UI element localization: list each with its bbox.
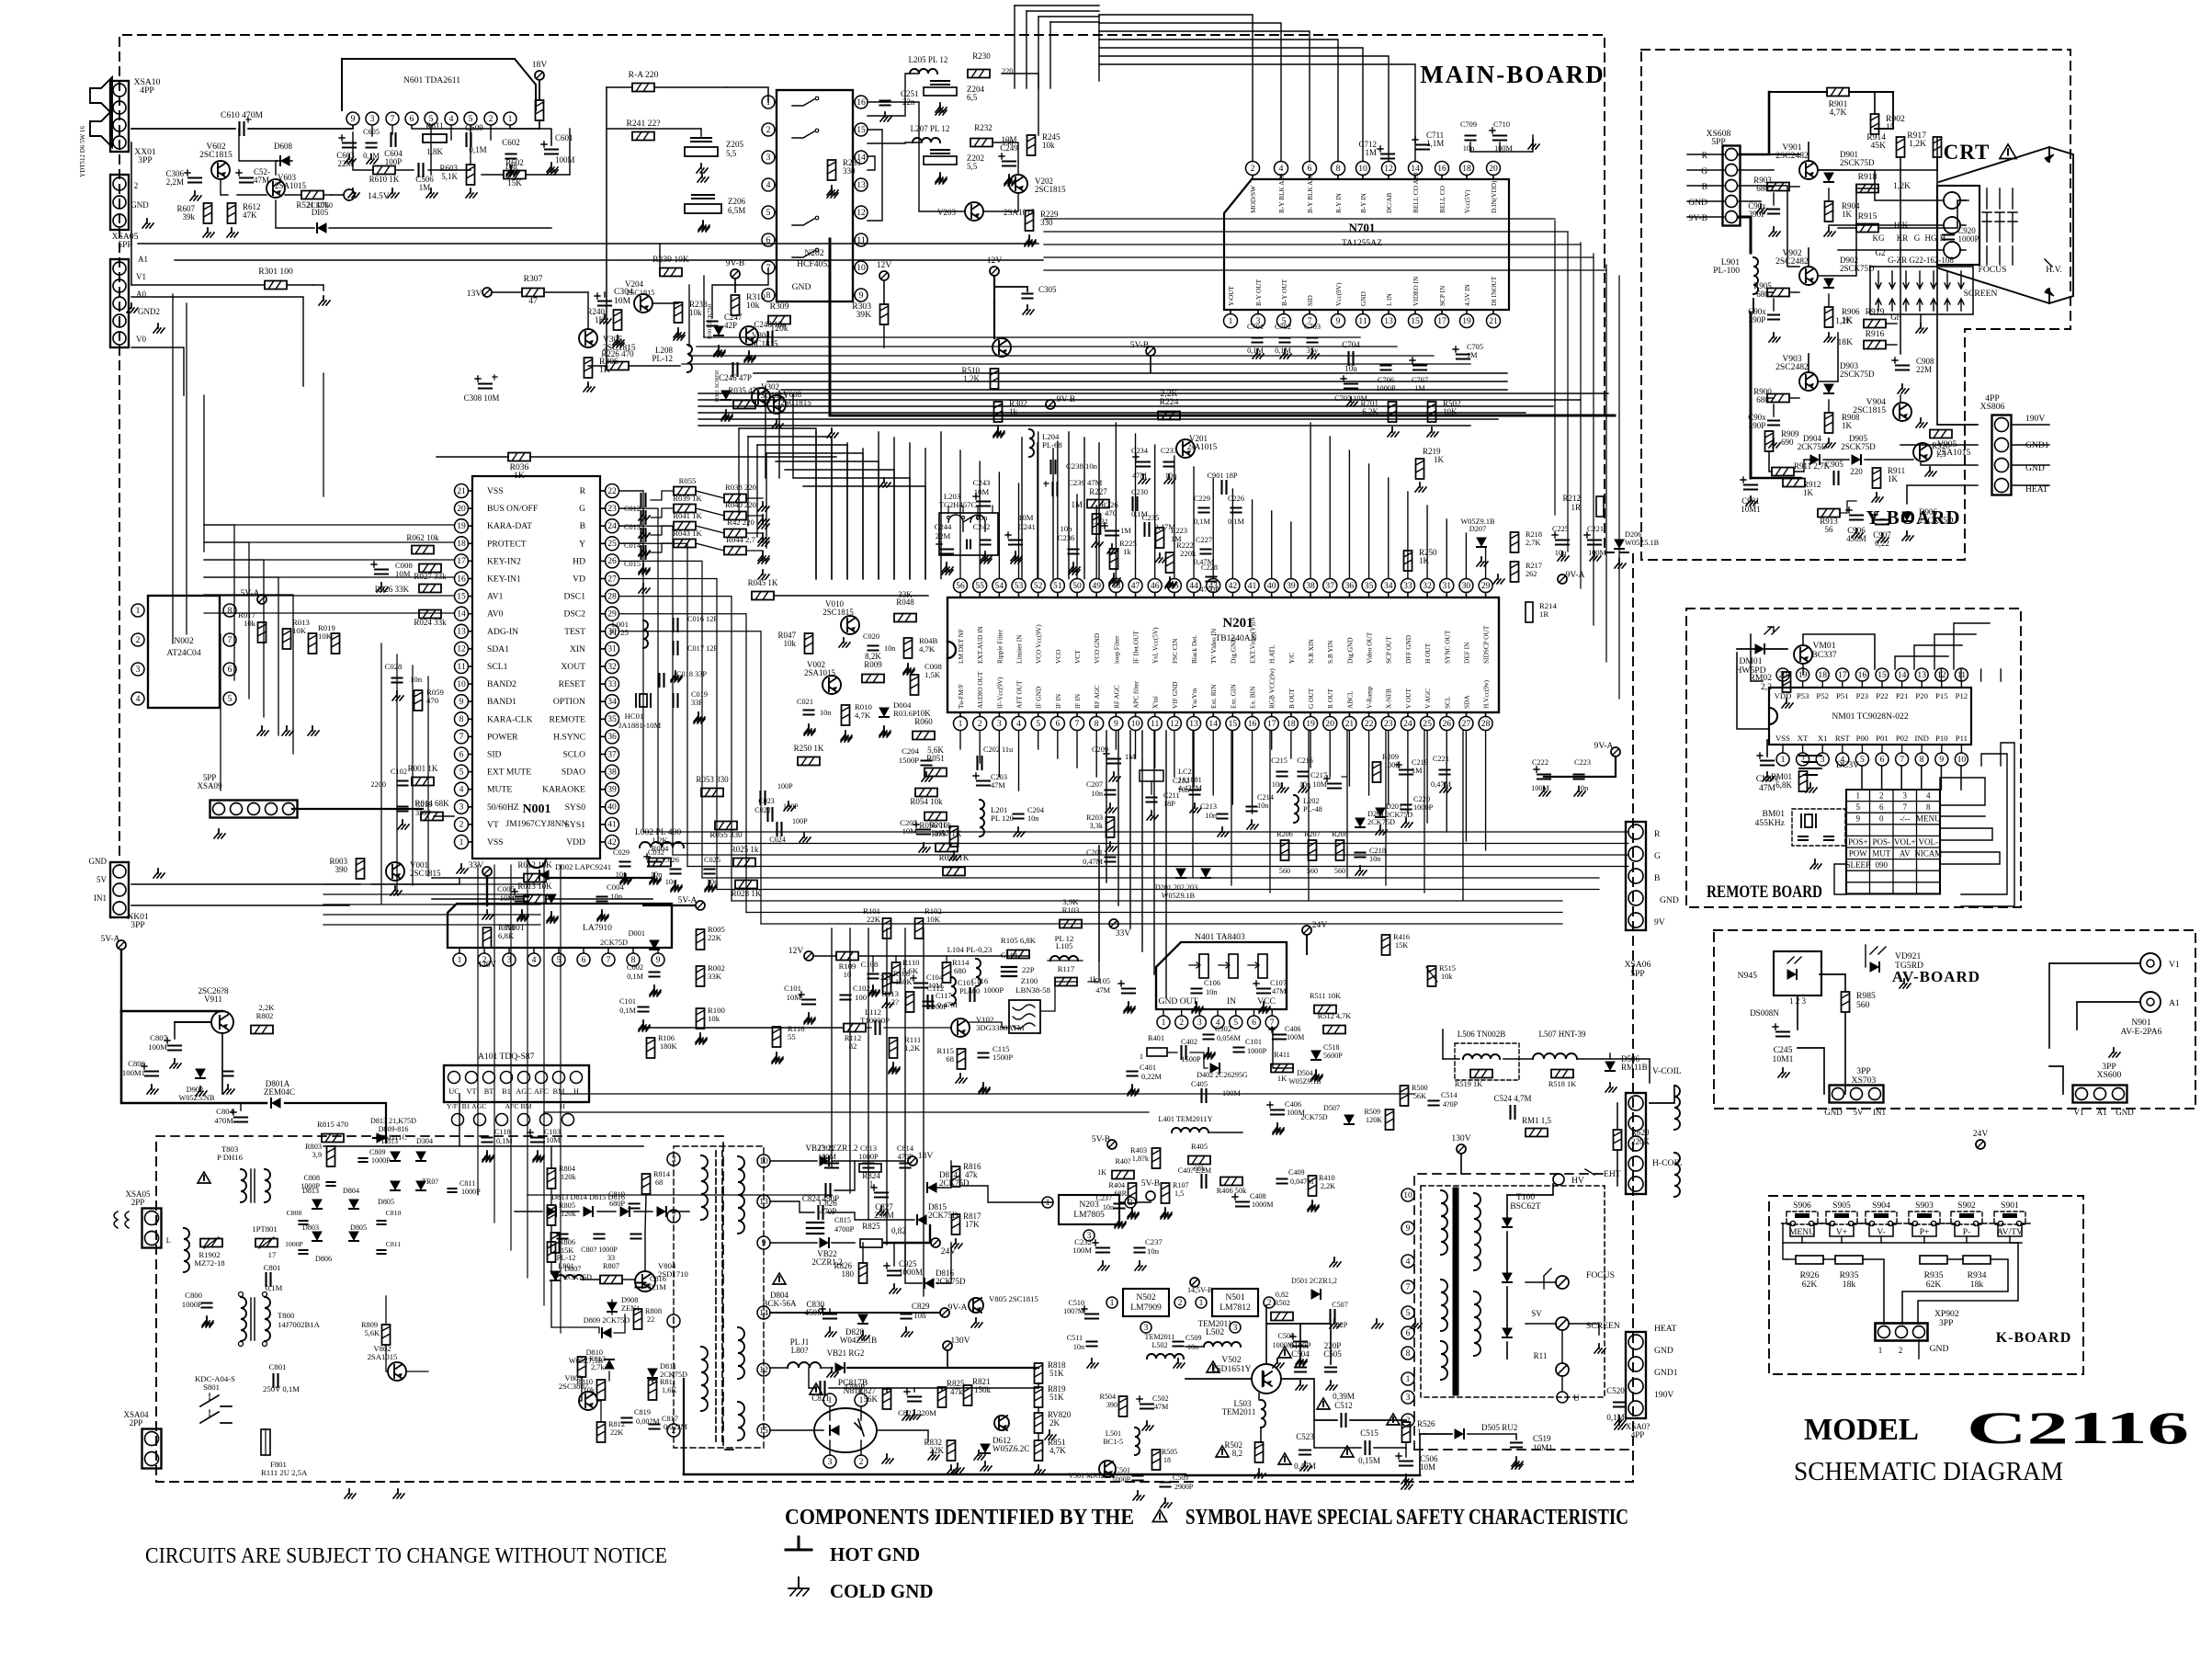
resistor R005 22K — [697, 925, 725, 950]
svg-text:220k: 220k — [1180, 549, 1197, 558]
svg-text:22K: 22K — [708, 933, 722, 942]
svg-text:1K: 1K — [1803, 488, 1814, 497]
diode string D813-D816 row — [515, 1193, 689, 1216]
cap C237 10n — [1095, 1194, 1126, 1226]
svg-text:690: 690 — [1781, 438, 1794, 447]
svg-text:BELL CO ADJ: BELL CO ADJ — [1412, 172, 1420, 213]
svg-text:L: L — [166, 1235, 171, 1245]
svg-text:100M1: 100M1 — [122, 1068, 145, 1077]
svg-text:10k: 10k — [746, 301, 760, 311]
regulator N203 LM7805 right — [961, 1178, 1163, 1270]
svg-text:MENU: MENU — [1916, 814, 1941, 824]
svg-text:23: 23 — [607, 504, 617, 514]
transistor V204 2SC1815 — [625, 279, 654, 313]
svg-text:7: 7 — [607, 955, 611, 965]
svg-text:C013: C013 — [624, 523, 641, 531]
svg-text:47M: 47M — [1272, 987, 1287, 995]
svg-text:S903: S903 — [1915, 1200, 1934, 1211]
NM01 pin 12 — [1935, 668, 1948, 700]
svg-text:C213: C213 — [1200, 802, 1217, 811]
svg-text:ADG-IN: ADG-IN — [487, 627, 518, 637]
resistor R824 1 — [859, 1164, 881, 1189]
svg-text:C704: C704 — [1342, 340, 1360, 349]
N001 pin 16 (KEY-IN1) — [455, 572, 521, 586]
A101 bottom caps C118 C103 — [482, 1128, 562, 1160]
resistor R222a 1M — [1155, 527, 1187, 563]
svg-text:C801: C801 — [264, 1263, 281, 1272]
flyback pins — [1401, 1189, 1414, 1427]
svg-text:H.Vcc(9v): H.Vcc(9v) — [1482, 679, 1491, 709]
connector XSA05 2PP mains — [114, 1189, 162, 1248]
svg-text:2SC1815: 2SC1815 — [1853, 405, 1886, 415]
focus potentiometer — [1526, 1269, 1615, 1289]
cap C236 10n — [1058, 524, 1080, 572]
N201 pin 16 (Ex. BIN) — [1245, 686, 1259, 731]
svg-text:C028: C028 — [385, 662, 403, 671]
svg-text:D501 2CZR1,2: D501 2CZR1,2 — [1291, 1277, 1337, 1285]
svg-text:IN1: IN1 — [94, 893, 107, 903]
svg-text:180K: 180K — [660, 1042, 676, 1051]
NM01 pin 13 — [1915, 668, 1928, 700]
svg-text:2CK75D: 2CK75D — [928, 1211, 959, 1220]
resistor R225 1k — [1109, 539, 1137, 583]
resistor R411 1K — [1271, 1051, 1293, 1083]
svg-text:R041 1K: R041 1K — [673, 511, 702, 520]
transistor V803 2SC3807 — [559, 1373, 597, 1410]
resistor R036 1K — [437, 453, 836, 482]
N401 pin 1 — [1157, 1009, 1170, 1029]
svg-text:C806: C806 — [128, 1059, 145, 1068]
resistor R110 5.6K — [892, 958, 921, 983]
title C2116 — [1967, 1402, 2189, 1453]
svg-text:13: 13 — [1189, 719, 1198, 729]
svg-text:R026 33K: R026 33K — [375, 585, 410, 594]
inductor L502b TEM2011 — [1145, 1333, 1184, 1359]
svg-text:C104: C104 — [926, 973, 944, 982]
resistor R520 220K — [1614, 1103, 1650, 1186]
svg-text:39: 39 — [607, 785, 617, 795]
svg-text:S905: S905 — [1832, 1200, 1851, 1211]
svg-text:X-NFB: X-NFB — [1385, 688, 1393, 709]
N201 top pin stub wires — [960, 423, 1486, 579]
svg-text:9: 9 — [859, 290, 864, 301]
svg-text:0,1M: 0,1M — [1194, 518, 1210, 526]
audio resistor R610 1K — [369, 166, 400, 185]
svg-text:PL 120: PL 120 — [991, 813, 1015, 823]
svg-text:10M: 10M — [974, 487, 990, 496]
svg-text:49: 49 — [1092, 581, 1101, 591]
svg-text:TEST: TEST — [564, 627, 585, 637]
svg-text:L203: L203 — [944, 492, 960, 501]
diode D828 W04Z9.1B — [840, 1314, 877, 1345]
svg-text:SCLO: SCLO — [562, 750, 585, 760]
svg-text:2,2: 2,2 — [1761, 682, 1772, 692]
svg-text:55: 55 — [975, 581, 984, 591]
svg-text:10: 10 — [856, 263, 866, 273]
N001 pin 23 (G) — [579, 502, 618, 516]
svg-text:C244: C244 — [935, 522, 952, 531]
svg-text:9: 9 — [656, 955, 661, 965]
resistor R802 2.2K — [251, 1003, 275, 1034]
resistor R912 1K — [1783, 479, 1821, 498]
svg-text:R208: R208 — [1332, 830, 1348, 838]
cap C242 10n — [973, 513, 992, 561]
svg-text:C246 47P: C246 47P — [719, 373, 752, 382]
svg-text:C203: C203 — [991, 773, 1007, 781]
svg-text:L502: L502 — [1151, 1341, 1167, 1349]
svg-text:GND OUT: GND OUT — [1159, 996, 1198, 1007]
cap C505 220P — [1323, 1341, 1342, 1390]
resistor R814 68 — [642, 1170, 671, 1194]
svg-text:32: 32 — [607, 662, 617, 672]
svg-text:1000P: 1000P — [983, 985, 1004, 995]
cap C827 250M — [871, 1185, 894, 1220]
N001 pin 35 (REMOTE) — [550, 712, 619, 726]
svg-text:B1 AGC: B1 AGC — [462, 1102, 487, 1110]
svg-text:BAND1: BAND1 — [487, 697, 516, 707]
svg-text:2CK75D: 2CK75D — [1798, 442, 1828, 451]
svg-text:3: 3 — [828, 1457, 833, 1467]
svg-text:120K: 120K — [1366, 1116, 1382, 1124]
svg-text:G: G — [1654, 851, 1661, 861]
svg-text:9: 9 — [351, 114, 356, 124]
diode D501 2CZR1.2 — [1291, 1277, 1337, 1299]
svg-text:N202: N202 — [804, 248, 824, 258]
svg-text:2CK75D: 2CK75D — [600, 939, 628, 947]
N201 pin 3 (IF-Vcc(9V)) — [993, 677, 1006, 731]
N201 pin 51 (VCO) — [1050, 579, 1064, 665]
svg-text:V501 MJG2383: V501 MJG2383 — [1068, 1472, 1115, 1480]
svg-text:C523: C523 — [1296, 1432, 1314, 1441]
resistor R934 18k — [1963, 1256, 1991, 1290]
svg-text:PL-68: PL-68 — [1042, 440, 1062, 449]
svg-text:1000P: 1000P — [1413, 803, 1434, 812]
connector XSA05 5PP left — [110, 232, 164, 347]
svg-text:0: 0 — [1879, 814, 1884, 824]
svg-text:POW: POW — [1849, 849, 1868, 859]
svg-text:1,8K: 1,8K — [426, 147, 443, 156]
svg-text:6: 6 — [1308, 164, 1312, 174]
resistor R111 1.2K — [889, 1035, 921, 1072]
svg-text:R106: R106 — [658, 1034, 675, 1042]
svg-text:2200: 2200 — [370, 780, 386, 789]
svg-text:V-Ramp: V-Ramp — [1366, 686, 1374, 709]
svg-text:14J7002B1A: 14J7002B1A — [278, 1320, 321, 1329]
resistor R009 8.2K — [862, 652, 884, 683]
svg-text:22: 22 — [607, 486, 617, 496]
audio cap C602 10n — [502, 138, 520, 175]
N001 pin 22 (R) — [580, 484, 619, 498]
svg-text:C2116: C2116 — [1967, 1402, 2189, 1453]
svg-text:C520: C520 — [1606, 1386, 1625, 1395]
svg-text:YscVm: YscVm — [1190, 688, 1198, 709]
resistor R027 33k — [414, 564, 447, 582]
svg-text:2: 2 — [1879, 791, 1884, 801]
svg-text:N945: N945 — [1738, 971, 1758, 981]
N601 pin 2 — [484, 112, 497, 125]
svg-text:1000P: 1000P — [1957, 234, 1979, 244]
cap C406b 100M — [1269, 1025, 1304, 1041]
svg-text:150K: 150K — [895, 978, 912, 986]
svg-text:16: 16 — [856, 97, 866, 108]
svg-text:D304: D304 — [416, 1137, 433, 1145]
transistor V501 MJG2383 — [1068, 1461, 1116, 1480]
connector XSA10 4PP speaker — [110, 77, 161, 152]
cap C304 10M — [595, 287, 633, 324]
svg-text:1M: 1M — [1365, 148, 1377, 157]
AV connector XS600 3PP — [2073, 1062, 2135, 1117]
svg-text:PC817B: PC817B — [838, 1378, 868, 1388]
ic N001 JM1967CYJ8NN body — [472, 476, 600, 868]
N101 pin 8 — [627, 948, 640, 966]
svg-text:ZEM04C: ZEM04C — [264, 1087, 295, 1097]
tuner cap C106 10n — [1192, 979, 1220, 1011]
N201 pin 13 (YscVm) — [1187, 688, 1201, 730]
svg-text:10n: 10n — [410, 675, 423, 684]
resistor R521 10K — [296, 191, 329, 210]
svg-text:2SCK75D: 2SCK75D — [1840, 370, 1875, 379]
svg-text:2sA1015: 2sA1015 — [1187, 442, 1218, 451]
svg-text:S904: S904 — [1872, 1200, 1890, 1211]
svg-text:1000M: 1000M — [1273, 1341, 1294, 1349]
N701 pin 5 (B-Y OUT) — [1277, 279, 1291, 327]
svg-text:XIN: XIN — [570, 644, 585, 654]
resistor R226 470 — [588, 349, 680, 370]
svg-text:D809 2CK75D: D809 2CK75D — [584, 1316, 630, 1325]
svg-text:TA1255AZ: TA1255AZ — [1342, 238, 1382, 248]
svg-text:C106: C106 — [1204, 979, 1220, 987]
svg-text:1: 1 — [458, 955, 462, 965]
resistor R500 56K b — [1401, 1084, 1428, 1106]
svg-text:Z206: Z206 — [728, 197, 745, 206]
cap C907 0.22 — [1872, 512, 1891, 548]
svg-text:2: 2 — [859, 1457, 864, 1467]
ic N501 LM7812 — [1196, 1289, 1275, 1333]
svg-text:IF Det.OUT: IF Det.OUT — [1132, 631, 1140, 664]
svg-text:C242: C242 — [973, 522, 991, 531]
resistor R002 33K — [697, 963, 725, 986]
svg-text:33K: 33K — [898, 590, 913, 599]
svg-text:C016 12P: C016 12P — [687, 615, 718, 623]
resistor R403 1.8K — [1130, 1146, 1160, 1168]
svg-text:3,9K: 3,9K — [1062, 897, 1079, 906]
svg-text:220K: 220K — [1631, 1137, 1650, 1146]
svg-text:6: 6 — [1252, 1018, 1256, 1028]
svg-text:10n: 10n — [1147, 1246, 1160, 1256]
svg-text:8: 8 — [766, 290, 771, 301]
resistor R217 262 — [1493, 562, 1542, 584]
svg-text:N502: N502 — [1136, 1292, 1156, 1303]
svg-text:XT: XT — [1798, 734, 1809, 743]
svg-text:15K: 15K — [507, 178, 522, 188]
svg-text:1: 1 — [672, 1316, 676, 1326]
svg-text:R027 33k: R027 33k — [414, 572, 447, 581]
svg-text:C811: C811 — [459, 1179, 475, 1188]
N202 pin 10 — [853, 261, 868, 274]
audio cap C506 1M — [415, 164, 434, 192]
svg-text:GND: GND — [1688, 198, 1707, 208]
svg-text:37: 37 — [607, 749, 617, 759]
svg-text:C118: C118 — [494, 1128, 511, 1136]
N701 pin 20 (D.IN(VDD)) — [1487, 162, 1501, 214]
svg-text:C101: C101 — [619, 997, 636, 1006]
bottom left line cluster R504 C502 — [1099, 1393, 1168, 1455]
svg-text:R808: R808 — [645, 1307, 662, 1315]
N001 pin 7 (POWER) — [455, 730, 519, 744]
svg-text:R025 1k: R025 1k — [731, 845, 759, 854]
svg-text:Z100: Z100 — [1021, 976, 1038, 985]
svg-text:EXT.Video(Y)IN: EXT.Video(Y)IN — [1249, 617, 1257, 664]
svg-text:VD: VD — [573, 575, 585, 585]
S-cap wires deflection — [1443, 1030, 1650, 1083]
N701 pin 7 (SID) — [1303, 295, 1317, 327]
svg-text:SID: SID — [1306, 295, 1314, 306]
resistor R024 33k — [414, 610, 447, 628]
N001 pin 4 (MUTE) — [455, 782, 513, 796]
svg-text:C241: C241 — [1018, 522, 1036, 531]
flyback aux pot and U terminal — [1534, 1324, 1605, 1404]
svg-text:C229: C229 — [1194, 495, 1210, 503]
svg-text:13: 13 — [457, 627, 466, 637]
N001 pin 8 (KARA-CLK) — [455, 712, 533, 726]
svg-text:C105: C105 — [1094, 977, 1110, 985]
ceramic filter Z205 5.5 — [607, 129, 743, 173]
resistor R807 33 — [600, 1254, 622, 1284]
svg-text:1R: 1R — [1571, 503, 1581, 512]
svg-text:17: 17 — [1838, 670, 1847, 680]
svg-text:SCREEN: SCREEN — [1586, 1321, 1620, 1331]
resistor R816 47k vertical — [952, 1162, 982, 1187]
svg-text:T800: T800 — [278, 1311, 295, 1320]
svg-text:15: 15 — [1411, 316, 1420, 326]
svg-text:10M: 10M — [1312, 780, 1327, 789]
svg-text:47M: 47M — [1154, 1403, 1168, 1411]
svg-text:1: 1 — [828, 1395, 833, 1405]
cap C405 100M — [1191, 1080, 1241, 1102]
fuse F801 T2.5A — [261, 1429, 308, 1477]
svg-text:0,47M: 0,47M — [1154, 522, 1175, 531]
N202 pin 9 — [853, 289, 868, 301]
svg-text:R515: R515 — [1439, 964, 1456, 973]
svg-text:V-COIL: V-COIL — [1652, 1066, 1682, 1076]
svg-text:42: 42 — [607, 837, 617, 848]
svg-text:SYNC OUT: SYNC OUT — [1443, 630, 1451, 664]
N001 pin 1 (VSS) — [455, 836, 504, 849]
cap C829 10n — [902, 1302, 931, 1337]
svg-text:AV1: AV1 — [487, 592, 504, 602]
svg-text:12: 12 — [856, 208, 866, 218]
svg-text:68: 68 — [655, 1178, 663, 1187]
diode D505 RU2 and C519 — [1424, 1423, 1553, 1466]
diode D001b 2CK75D — [600, 929, 659, 950]
svg-text:BC337: BC337 — [1811, 650, 1836, 660]
svg-text:MAIN-BOARD: MAIN-BOARD — [1420, 61, 1605, 88]
svg-text:VCO Vcc(9V): VCO Vcc(9V) — [1035, 624, 1043, 664]
svg-text:4PP: 4PP — [1631, 1430, 1645, 1439]
svg-text:R805: R805 — [559, 1201, 575, 1210]
svg-text:12V: 12V — [788, 946, 804, 956]
svg-text:C809: C809 — [369, 1148, 386, 1156]
cap C708 1M — [1453, 343, 1483, 359]
AV board wires — [1798, 945, 2140, 1094]
svg-text:250V 0,1M: 250V 0,1M — [263, 1384, 300, 1394]
N201 pin 36 (Dig.GND) — [1343, 579, 1356, 665]
svg-text:18V: 18V — [532, 60, 548, 70]
NM01 pin 9 — [1935, 734, 1948, 766]
svg-text:1000P: 1000P — [285, 1240, 303, 1248]
svg-text:C505: C505 — [1323, 1349, 1342, 1359]
svg-text:51: 51 — [1053, 581, 1062, 591]
svg-text:TEM2011: TEM2011 — [1145, 1333, 1175, 1341]
svg-text:C507: C507 — [1332, 1301, 1348, 1309]
svg-text:C235: C235 — [1142, 513, 1160, 522]
svg-text:X'tal: X'tal — [1151, 696, 1160, 709]
svg-text:B: B — [1702, 182, 1707, 192]
svg-text:D813 21,K75D: D813 21,K75D — [370, 1117, 416, 1125]
svg-text:L401 TEM2011Y: L401 TEM2011Y — [1158, 1115, 1212, 1123]
svg-text:10K: 10K — [926, 915, 941, 924]
svg-text:2,7k: 2,7k — [591, 1363, 605, 1371]
svg-text:KR: KR — [1897, 233, 1909, 243]
N001 pin 34 (OPTION) — [553, 695, 619, 709]
resistor R-A 220 — [607, 70, 726, 92]
key switch S902 (P-) — [1946, 1200, 1987, 1237]
svg-text:1,2K: 1,2K — [1909, 139, 1926, 149]
resistor R014 68K — [414, 799, 449, 821]
switcher primary wires — [386, 1126, 1184, 1452]
svg-text:680: 680 — [954, 966, 967, 975]
svg-text:R812: R812 — [608, 1420, 625, 1428]
svg-text:12: 12 — [457, 644, 466, 654]
verticals below tuner to power area — [832, 928, 924, 1296]
note COMPONENTS IDENTIFIED — [785, 1506, 1628, 1530]
svg-text:XS703: XS703 — [1852, 1075, 1877, 1086]
svg-text:R212: R212 — [1562, 494, 1581, 503]
svg-text:PL-12: PL-12 — [652, 354, 674, 363]
svg-text:16: 16 — [1437, 164, 1446, 174]
svg-text:R230: R230 — [972, 51, 991, 61]
svg-text:YDT512 D6 5W 16: YDT512 D6 5W 16 — [79, 126, 86, 177]
legend cold gnd symbol — [788, 1577, 934, 1602]
svg-text:39k: 39k — [183, 212, 196, 222]
diode D810 W05Z7.5B — [569, 1348, 614, 1369]
line filter T800 14J7002B1A — [239, 1292, 321, 1347]
svg-text:C237: C237 — [1145, 1237, 1163, 1246]
pot RV820 2K — [994, 1410, 1072, 1433]
svg-text:RESET: RESET — [559, 679, 585, 689]
svg-text:4: 4 — [532, 955, 537, 965]
N001 pin 20 (BUS ON/OFF) — [455, 502, 539, 516]
discriminator TC201 L203 — [939, 492, 998, 555]
svg-text:C212: C212 — [1173, 777, 1189, 785]
CRT gun drive wires — [1818, 170, 1944, 250]
transistor V804 2SD1710 — [635, 1261, 688, 1291]
svg-text:130V: 130V — [1451, 1133, 1470, 1143]
svg-text:POWER: POWER — [487, 732, 518, 742]
svg-text:3PP: 3PP — [130, 920, 144, 930]
svg-text:10n: 10n — [820, 709, 832, 717]
svg-text:R045 1K: R045 1K — [748, 578, 778, 587]
svg-text:5: 5 — [1406, 1308, 1411, 1318]
svg-text:SYMBOL HAVE SPECIAL SAFETY CHA: SYMBOL HAVE SPECIAL SAFETY CHARACTERISTI… — [1185, 1506, 1628, 1530]
svg-text:R802: R802 — [256, 1011, 274, 1020]
svg-text:P22: P22 — [1876, 691, 1889, 700]
svg-text:TG5RD: TG5RD — [1895, 961, 1923, 971]
svg-text:VT: VT — [487, 820, 499, 830]
N601 pin 6 — [405, 112, 418, 125]
svg-text:DFF GND: DFF GND — [1404, 635, 1412, 664]
svg-text:4: 4 — [1926, 791, 1931, 801]
